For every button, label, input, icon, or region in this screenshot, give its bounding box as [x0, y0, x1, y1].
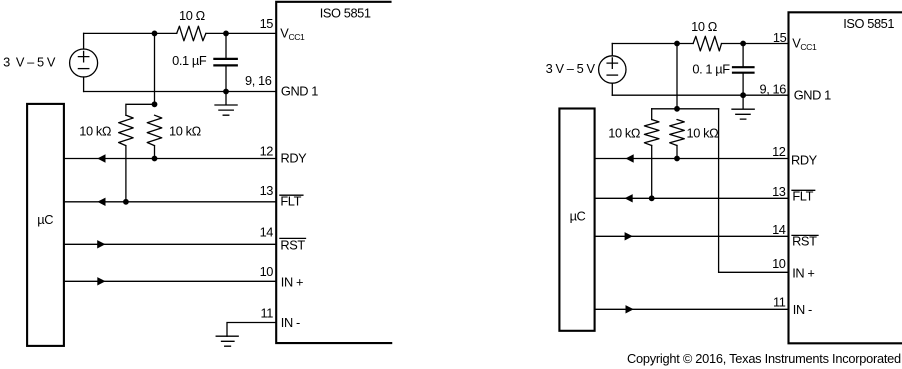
V2 plus sign: [607, 58, 617, 68]
junction R5/FLT (right): [649, 195, 655, 201]
svg-text:15: 15: [773, 30, 787, 45]
arrow FLT toward uC (left): [97, 198, 105, 206]
resistor R5 zigzag: [644, 120, 659, 146]
wire GND rail (left): [84, 91, 277, 93]
wire R4 to pin 15 (right): [722, 43, 789, 45]
wire supply to pullup bar (right): [676, 44, 678, 109]
junction node supply/pullup (left): [152, 31, 158, 37]
junction node Vcc1/cap (right): [740, 41, 746, 47]
wire supply to pullup bar (left): [154, 33, 156, 104]
svg-text:11: 11: [773, 295, 786, 310]
capacitor C1 bottom stem: [225, 67, 227, 92]
svg-text:0.1 µF: 0.1 µF: [172, 53, 207, 68]
wire IN+ (left): [65, 280, 277, 282]
svg-text:GND 1: GND 1: [794, 87, 831, 102]
svg-text:0. 1 µF: 0. 1 µF: [692, 61, 730, 76]
svg-text:13: 13: [260, 183, 274, 198]
wire FLT (right): [595, 197, 788, 199]
svg-text:10 kΩ: 10 kΩ: [169, 123, 202, 138]
ground symbol under C2: [732, 95, 754, 119]
arrow RDY toward uC (right): [626, 154, 634, 162]
wire supply rail to node: [84, 32, 177, 34]
svg-text:10: 10: [772, 256, 786, 271]
voltage source V1 3V-5V (left): [70, 49, 98, 77]
svg-text:15: 15: [260, 16, 274, 31]
wire R6 bottom to RDY: [676, 146, 678, 159]
capacitor C2 bottom stem (right): [742, 73, 744, 95]
svg-text:IN +: IN +: [281, 274, 303, 289]
svg-text:12: 12: [772, 144, 786, 159]
arrow RST toward IC (left): [97, 240, 105, 248]
ground symbol under C1: [215, 92, 237, 116]
IC U1 ISO 5851 body (left): [276, 2, 391, 343]
ground symbol at IN- (left): [216, 336, 238, 346]
pullup top bar wire (right): [652, 108, 719, 110]
svg-text:3 V – 5 V: 3 V – 5 V: [3, 54, 56, 69]
resistor R1 10 ohm zigzag: [177, 26, 206, 41]
V2 minus sign: [607, 74, 617, 76]
svg-text:IN -: IN -: [793, 302, 812, 317]
wire R3 bottom to RDY: [154, 146, 156, 159]
svg-text:IN +: IN +: [792, 265, 814, 280]
junction R2/FLT (left): [123, 199, 129, 205]
svg-text:9, 16: 9, 16: [245, 73, 272, 88]
svg-text:FLT: FLT: [280, 194, 301, 209]
wire IN- (right): [595, 308, 788, 310]
pullup top bar wire (left): [126, 104, 155, 115]
wire V1 bottom stub: [83, 77, 85, 92]
svg-text:RDY: RDY: [791, 152, 818, 167]
resistor R6 10k right pullup zigzag: [670, 120, 685, 146]
wire R5 bottom to FLT: [651, 146, 653, 199]
microcontroller uC box (right): [559, 109, 594, 331]
voltage source V2 3V-5V (right): [599, 56, 626, 83]
wire RDY (left): [65, 158, 277, 160]
junction GND/cap (left): [223, 89, 229, 95]
svg-text:IN -: IN -: [281, 315, 300, 330]
svg-text:14: 14: [772, 222, 786, 237]
junction pullup top (right): [674, 106, 680, 112]
junction pullup top (left): [152, 101, 158, 107]
capacitor C1 plates: [214, 59, 236, 66]
svg-text:9, 16: 9, 16: [760, 82, 787, 97]
wire V2 top stub: [611, 44, 613, 56]
wire supply rail to R4 (right): [612, 43, 693, 45]
svg-text:11: 11: [261, 305, 274, 320]
resistor R3 10k right pullup zigzag: [147, 115, 162, 145]
V1 minus sign: [78, 68, 88, 70]
arrow IN+ toward IC (left): [97, 277, 105, 285]
svg-text:µC: µC: [570, 208, 586, 223]
resistor R4 10 ohm zigzag (right): [693, 36, 721, 51]
svg-text:10 kΩ: 10 kΩ: [608, 126, 641, 141]
svg-text:ISO 5851: ISO 5851: [320, 6, 371, 21]
capacitor C1 top stem: [225, 33, 227, 57]
svg-text:14: 14: [260, 225, 274, 240]
resistor R5 10k left pullup stem (right): [651, 109, 653, 120]
wire IN- to ground (left): [227, 323, 276, 337]
V1 plus sign: [78, 51, 88, 61]
svg-text:10: 10: [260, 264, 274, 279]
svg-text:Copyright © 2016, Texas Instru: Copyright © 2016, Texas Instruments Inco…: [627, 351, 901, 366]
svg-text:10 kΩ: 10 kΩ: [687, 126, 720, 141]
arrow RDY toward uC (left): [97, 154, 105, 162]
wire RDY (right): [595, 158, 788, 160]
wire GND rail (right): [612, 94, 788, 96]
svg-text:10 Ω: 10 Ω: [179, 8, 206, 23]
resistor R2 10k left pullup zigzag: [119, 115, 134, 145]
svg-text:3 V – 5 V: 3 V – 5 V: [546, 61, 596, 76]
svg-text:10 Ω: 10 Ω: [691, 19, 718, 34]
wire RST (right): [595, 235, 788, 237]
wire V1 top stub: [83, 33, 85, 49]
svg-text:RDY: RDY: [281, 151, 308, 166]
wire RST (left): [65, 243, 277, 245]
arrow IN- toward IC (right): [626, 305, 634, 313]
wire R1 to pin 15: [206, 32, 276, 34]
arrow RST toward IC (right): [625, 232, 633, 240]
arrow FLT toward uC (right): [625, 194, 633, 202]
capacitor C2 plates (right): [733, 67, 754, 73]
svg-text:ISO 5851: ISO 5851: [843, 16, 894, 31]
junction node Vcc1/cap (left): [223, 31, 229, 37]
IC U2 ISO 5851 body (right): [789, 12, 902, 343]
wire R2 bottom to FLT: [125, 146, 127, 202]
junction R6/RDY (right): [674, 156, 680, 162]
wire pullup bar to IN+ (right): [719, 109, 789, 272]
svg-text:10 kΩ: 10 kΩ: [79, 123, 112, 138]
junction GND/cap (right): [740, 92, 746, 98]
capacitor C2 top stem (right): [742, 44, 744, 67]
junction node supply/pullup (right): [674, 41, 680, 47]
svg-text:RST: RST: [280, 238, 305, 253]
svg-text:13: 13: [772, 184, 786, 199]
svg-text:GND 1: GND 1: [281, 84, 318, 99]
svg-text:12: 12: [260, 144, 274, 159]
svg-text:µC: µC: [37, 212, 53, 227]
wire FLT (left): [65, 201, 277, 203]
wire V2 bottom stub: [611, 83, 613, 95]
junction R3/RDY (left): [152, 156, 158, 162]
microcontroller uC box (left): [27, 104, 64, 346]
